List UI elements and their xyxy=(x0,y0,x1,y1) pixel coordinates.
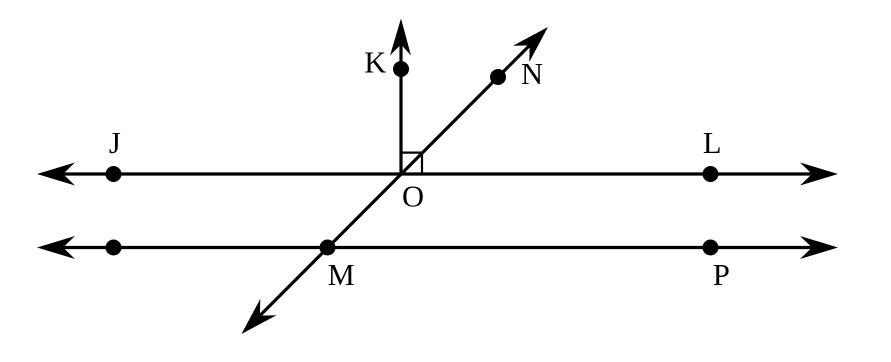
svg-text:O: O xyxy=(402,179,424,213)
point P xyxy=(703,240,719,256)
svg-text:M: M xyxy=(328,258,355,292)
arrowhead left end of line JL xyxy=(37,163,75,186)
right-angle mark at O xyxy=(401,153,422,174)
svg-text:K: K xyxy=(364,45,386,79)
arrowhead left end of line MP xyxy=(37,236,75,259)
arrowhead bottom-left end of transversal xyxy=(242,299,277,334)
point K xyxy=(393,61,409,77)
arrowhead top end of ray OK xyxy=(390,19,411,56)
svg-text:P: P xyxy=(713,258,730,292)
point on line MP at left (unlabeled) xyxy=(106,240,122,256)
point L xyxy=(703,166,719,182)
arrowhead top-right end of transversal xyxy=(513,27,548,62)
point M xyxy=(320,240,336,256)
line MP (bottom horizontal line through M, P) xyxy=(58,246,817,249)
point J xyxy=(106,166,122,182)
diagonal transversal line through M, O, N xyxy=(260,45,530,315)
line JL (top horizontal line through J, O, L) xyxy=(58,172,817,175)
point N xyxy=(490,69,506,85)
svg-text:N: N xyxy=(521,57,543,91)
svg-text:J: J xyxy=(109,126,121,160)
arrowhead right end of line MP xyxy=(800,236,838,259)
ray OK (vertical ray from O up through K) xyxy=(399,44,402,174)
arrowhead right end of line JL xyxy=(800,163,838,186)
svg-text:L: L xyxy=(703,126,722,160)
